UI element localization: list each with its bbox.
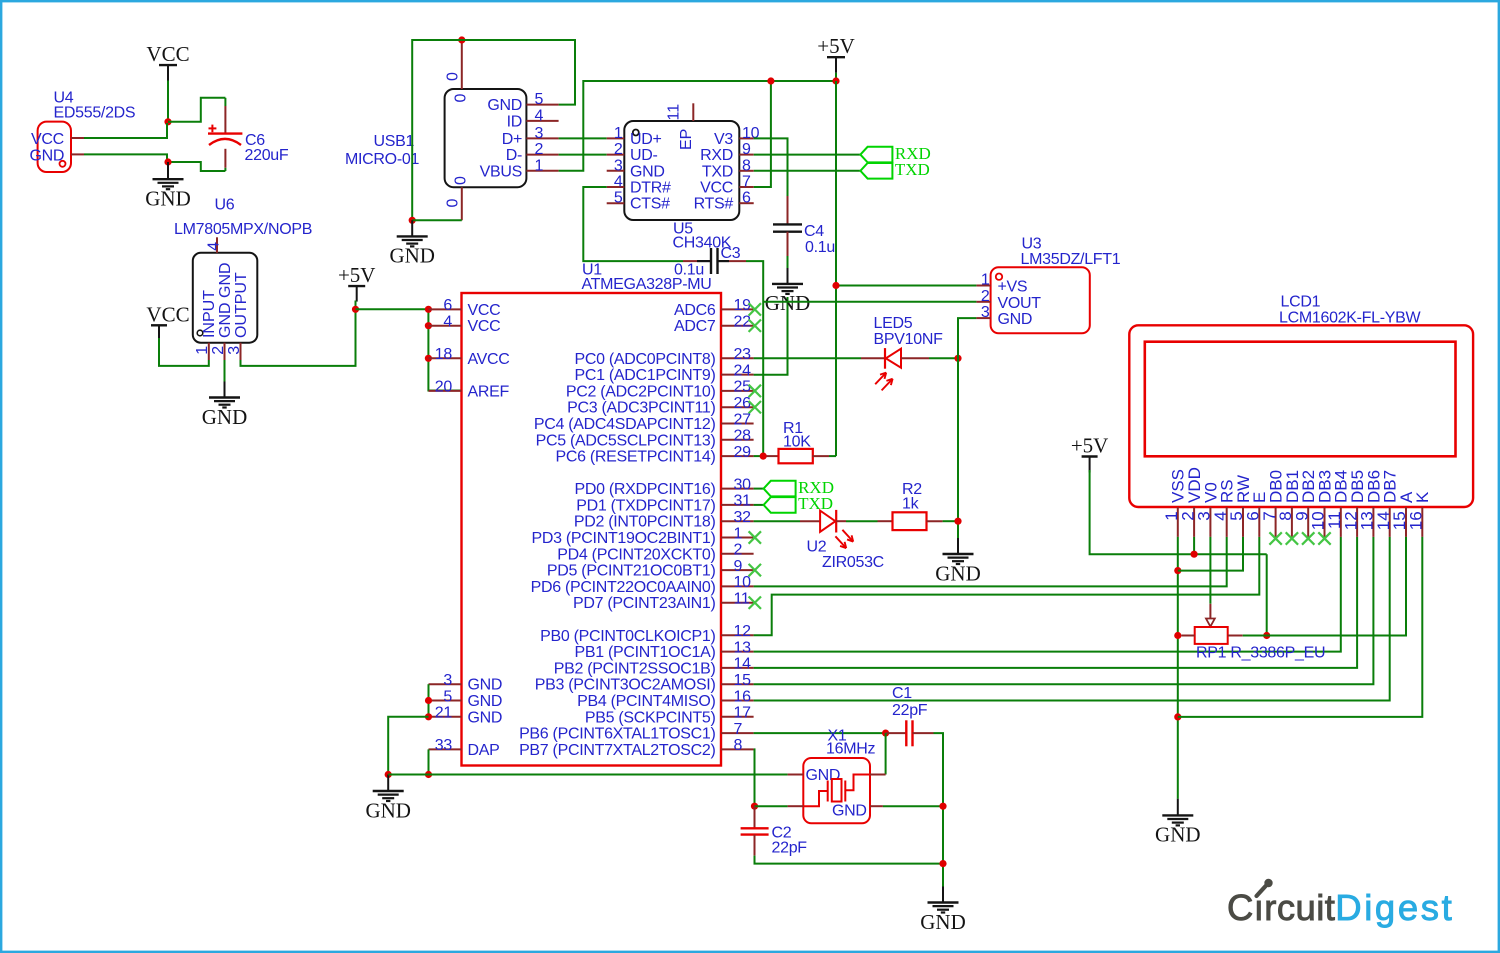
pin 23 PC0 of U1 (721, 357, 754, 359)
node C2/ground junction (939, 860, 946, 867)
svg-text:GND: GND (1155, 823, 1201, 847)
net flag RXD (U1 side) (764, 481, 796, 497)
pin 6 RTS# of U5 (739, 202, 753, 204)
svg-text:2: 2 (981, 288, 990, 305)
svg-text:1: 1 (194, 346, 211, 355)
svg-text:GND: GND (935, 561, 981, 585)
svg-text:VCC: VCC (31, 131, 64, 148)
photodiode LED5 BPV10NF (861, 357, 885, 359)
wire PC6 to R1 (754, 455, 767, 457)
wire VBUS to +5V rail (559, 81, 836, 171)
ground GND (top left) (167, 162, 169, 179)
svg-text:14: 14 (734, 656, 752, 673)
svg-text:+5V: +5V (338, 263, 376, 287)
wire PC0 to LED5 (754, 357, 861, 359)
svg-text:22pF: 22pF (892, 702, 928, 719)
svg-text:9: 9 (742, 141, 751, 158)
no-connect X on pin 19 (749, 303, 761, 315)
pin 10 V3 of U5 (739, 137, 753, 139)
svg-text:VCC: VCC (146, 42, 189, 66)
pin 6 E of LCD1 (1258, 507, 1260, 537)
wire VSS to RW (1178, 537, 1243, 571)
wire LCD VDD stub down (1193, 537, 1195, 554)
pin 31 PD1 of U1 (721, 504, 754, 506)
pin 6 VCC of U1 (429, 308, 462, 310)
pin 4 ID of USB1 (526, 120, 558, 122)
node U1 pin5 tap (425, 697, 432, 704)
svg-text:GND: GND (365, 798, 411, 822)
net flag TXD (U1 side) (764, 497, 796, 513)
svg-text:10: 10 (734, 574, 752, 591)
pin XTAL of X1 (top right) (870, 774, 886, 776)
svg-text:1: 1 (981, 272, 990, 289)
pin 1 of U6 (208, 343, 210, 360)
wire PD6 to LCD RS (754, 537, 1227, 587)
svg-text:U2: U2 (807, 539, 827, 556)
svg-text:ZIR053C: ZIR053C (822, 554, 884, 571)
wire X1 case to ground net (883, 805, 943, 807)
no-connect X on pin 25 (749, 385, 761, 397)
svg-text:AVCC: AVCC (468, 351, 510, 368)
node DAP junction (425, 771, 432, 778)
pin 32 PD2 of U1 (721, 520, 754, 522)
capacitor C3 0.1u (683, 260, 697, 262)
wire U6 pin 2 to ground (224, 360, 226, 382)
pin 33 DAP of U1 (429, 748, 462, 750)
wire PB0 to LCD E (754, 537, 1260, 635)
node XTAL2/C2 junction (751, 803, 758, 810)
svg-text:26: 26 (734, 395, 752, 412)
pin 27 PC4 of U1 (721, 423, 754, 425)
pin 8 TXD of U5 (739, 170, 753, 172)
wire PD0 to RXD flag (754, 488, 764, 490)
svg-text:10K: 10K (783, 434, 811, 451)
connector USB1 body (445, 89, 527, 187)
wire U2 to R2 (846, 520, 878, 522)
resistor R2 1k (878, 520, 893, 522)
svg-text:220uF: 220uF (245, 147, 289, 164)
svg-text:GND: GND (998, 311, 1033, 328)
svg-text:+VS: +VS (998, 279, 1028, 296)
wire +5V to U1 VCC pins (356, 308, 429, 310)
svg-text:29: 29 (734, 444, 752, 461)
wire XTAL1 down to X1 (885, 733, 887, 774)
svg-text:ADC6: ADC6 (674, 302, 716, 319)
svg-text:5: 5 (535, 91, 544, 108)
svg-text:PD3 (PCINT19OC2BINT1): PD3 (PCINT19OC2BINT1) (532, 530, 716, 547)
pin 3 D+ of USB1 (526, 137, 558, 139)
pin 7 DB0 of LCD1 (1275, 507, 1277, 537)
wire PB3 to LCD DB6 (754, 537, 1374, 684)
wire R1 to +5V rail (829, 455, 836, 457)
wire RP1 right to +5V net (1243, 635, 1267, 637)
pin 14 PB2 of U1 (721, 667, 754, 669)
svg-text:2: 2 (535, 141, 544, 158)
svg-text:GND: GND (920, 910, 966, 934)
capacitor C1 22pF (886, 732, 907, 734)
svg-text:VCC: VCC (146, 302, 189, 326)
svg-text:LCD1: LCD1 (1281, 294, 1321, 311)
wire U5 V3 to C4 (754, 138, 788, 196)
wire +5V stem (355, 301, 357, 310)
pin 4 of U6 (top) (216, 237, 218, 253)
svg-text:4: 4 (614, 174, 623, 191)
capacitor C6 (220uF polarized) (224, 98, 226, 106)
pin 16 PB4 of U1 (721, 700, 754, 702)
svg-text:GND: GND (630, 163, 665, 180)
svg-text:RTS#: RTS# (694, 196, 734, 213)
display LCD1 screen (1145, 342, 1456, 457)
pin 15 A of LCD1 (1405, 507, 1407, 537)
svg-text:GND: GND (145, 187, 191, 211)
svg-text:U3: U3 (1022, 236, 1042, 253)
svg-text:C1: C1 (892, 685, 912, 702)
svg-text:GND: GND (806, 767, 841, 784)
pin 2 UD- of U5 (607, 154, 625, 156)
svg-text:3: 3 (226, 346, 243, 355)
pin-1 mark of U6 (197, 330, 203, 336)
svg-text:2: 2 (614, 141, 623, 158)
svg-text:PD2 (INT0PCINT18): PD2 (INT0PCINT18) (574, 514, 716, 531)
svg-text:15: 15 (734, 672, 752, 689)
svg-text:0: 0 (445, 72, 462, 81)
potentiometer RP1 body (1195, 627, 1228, 644)
pin 1 PD3 of U1 (721, 537, 754, 539)
pin 15 PB3 of U1 (721, 683, 754, 685)
net flag RXD (U5 side) (860, 147, 892, 163)
pin 21 GND of U1 (429, 716, 462, 718)
wire PB2 to LCD DB5 (754, 537, 1358, 668)
svg-text:GND GND: GND GND (217, 262, 234, 338)
pin 18 AVCC of U1 (429, 357, 462, 359)
pin 12 DB5 of LCD1 (1356, 507, 1358, 537)
svg-text:LED5: LED5 (874, 315, 913, 332)
pin XTAL of X1 (bottom left) (788, 805, 804, 807)
svg-text:GND: GND (202, 405, 248, 429)
wire USB shield to GND (left loop) (412, 40, 462, 220)
pin 4 RS of LCD1 (1226, 507, 1228, 537)
svg-text:32: 32 (734, 509, 752, 526)
node +5V left junction (352, 306, 359, 313)
pin 10 DB3 of LCD1 (1324, 507, 1326, 537)
svg-text:PD7 (PCINT23AIN1): PD7 (PCINT23AIN1) (573, 595, 716, 612)
svg-text:33: 33 (435, 737, 453, 754)
IC U5 CH340K body (624, 121, 739, 220)
svg-text:USB1: USB1 (374, 133, 415, 150)
wire R2 net vertical to ground (957, 358, 959, 538)
svg-text:16: 16 (734, 688, 752, 705)
svg-text:4: 4 (206, 242, 223, 251)
svg-text:8: 8 (742, 157, 751, 174)
svg-text:PB3 (PCINT3OC2AMOSI): PB3 (PCINT3OC2AMOSI) (535, 677, 716, 694)
svg-text:PC4 (ADC4SDAPCINT12): PC4 (ADC4SDAPCINT12) (534, 416, 716, 433)
display LCD1 body (1129, 325, 1473, 507)
pin 3 GND of U1 (429, 683, 462, 685)
pin 13 DB6 of LCD1 (1372, 507, 1374, 537)
wire GND net down to U1 PC1 (754, 297, 788, 375)
wire C1 to ground down-right (934, 733, 944, 886)
node VSS/RW junction (1174, 567, 1181, 574)
svg-text:UD-: UD- (630, 147, 658, 164)
svg-text:GND: GND (468, 709, 503, 726)
svg-text:TXD: TXD (798, 494, 833, 513)
svg-text:PB2 (PCINT2SSOC1B): PB2 (PCINT2SSOC1B) (554, 660, 716, 677)
pin 2 VDD of LCD1 (1193, 507, 1195, 537)
wire PD1 to TXD flag (754, 504, 764, 506)
pin 26 PC3 of U1 (721, 406, 754, 408)
svg-text:20: 20 (435, 379, 453, 396)
node +5V rail / U5 VCC (767, 77, 774, 84)
svg-text:CTS#: CTS# (630, 196, 670, 213)
svg-text:PB7 (PCINT7XTAL2TOSC2): PB7 (PCINT7XTAL2TOSC2) (519, 742, 715, 759)
svg-text:INPUT: INPUT (201, 290, 218, 338)
pin 1 VSS of LCD1 (1177, 507, 1179, 537)
svg-text:19: 19 (734, 297, 752, 314)
wire USB shield top to pin 5 (462, 40, 575, 105)
svg-text:DAP: DAP (468, 742, 500, 759)
pin 24 PC1 of U1 (721, 374, 754, 376)
svg-text:27: 27 (734, 411, 752, 428)
svg-text:PC2 (ADC2PCINT10): PC2 (ADC2PCINT10) (566, 383, 716, 400)
svg-text:D-: D- (506, 147, 522, 164)
svg-text:C4: C4 (804, 223, 824, 240)
svg-text:PB4 (PCINT4MISO): PB4 (PCINT4MISO) (577, 693, 715, 710)
pin 25 PC2 of U1 (721, 390, 754, 392)
svg-text:4: 4 (535, 107, 544, 124)
pin 9 PD5 of U1 (721, 569, 754, 571)
svg-text:U6: U6 (215, 197, 235, 214)
svg-text:BPV10NF: BPV10NF (874, 331, 944, 348)
svg-text:PD4 (PCINT20XCKT0): PD4 (PCINT20XCKT0) (557, 546, 715, 563)
svg-text:V3: V3 (714, 131, 733, 148)
pin GND of U4 (71, 153, 84, 155)
wire junction to C6 top (168, 98, 225, 122)
wire U5 TXD to flag (754, 170, 861, 172)
no-connect X on LCD pin 8 (1286, 532, 1298, 544)
svg-text:4: 4 (443, 314, 452, 331)
pin 13 PB1 of U1 (721, 651, 754, 653)
pin 2 of U6 (224, 343, 226, 360)
wire XTAL2 to X1 pin (755, 805, 788, 807)
svg-text:UD+: UD+ (630, 131, 662, 148)
pin 8 PB7 of U1 (721, 748, 754, 750)
pin 30 PD0 of U1 (721, 488, 754, 490)
svg-text:PD0 (RXDPCINT16): PD0 (RXDPCINT16) (574, 481, 715, 498)
svg-text:GND: GND (765, 291, 811, 315)
svg-text:16: 16 (1407, 511, 1426, 530)
wire junction up to LM35 pin 3 (958, 318, 976, 358)
pin-1 mark of U4 (60, 161, 66, 167)
svg-text:31: 31 (734, 493, 752, 510)
node U1 pin4 tap (425, 322, 432, 329)
svg-text:TXD: TXD (895, 160, 930, 179)
wire LM35 VOUT to ADC0 net (763, 301, 976, 303)
wire DAP to ground rail (428, 749, 430, 774)
node +5V / LM35 tap (832, 282, 839, 289)
node GND junction below VCC (164, 158, 171, 165)
svg-text:GND: GND (832, 803, 867, 820)
svg-text:5: 5 (443, 688, 452, 705)
wire VCC to U6 pin 1 (159, 338, 209, 366)
svg-text:PB1 (PCINT1OC1A): PB1 (PCINT1OC1A) (574, 644, 715, 661)
node +5V rail corner (832, 77, 839, 84)
svg-text:1: 1 (734, 525, 743, 542)
svg-text:PC5 (ADC5SCLPCINT13): PC5 (ADC5SCLPCINT13) (536, 432, 716, 449)
svg-text:AREF: AREF (468, 383, 510, 400)
svg-text:30: 30 (734, 476, 752, 493)
wire PD2 to U2 LED (754, 520, 800, 522)
pin 16 K of LCD1 (1421, 507, 1423, 537)
node USB shield top junction (458, 36, 465, 43)
pin 14 DB7 of LCD1 (1389, 507, 1391, 537)
svg-text:11: 11 (734, 591, 750, 608)
node LED5/LM35 junction (954, 355, 961, 362)
node VCC/C6 junction (164, 118, 171, 125)
svg-text:D+: D+ (502, 131, 522, 148)
wire C6 bottom to GND junction (168, 162, 225, 171)
pin 3 GND of U3 (976, 317, 990, 319)
wire LCD VSS ground bus (1177, 537, 1179, 799)
pin 17 PB5 of U1 (721, 716, 754, 718)
svg-text:28: 28 (734, 428, 752, 445)
svg-text:25: 25 (734, 379, 752, 396)
svg-text:3: 3 (443, 672, 452, 689)
ground GND (below USB1) (411, 220, 413, 236)
no-connect X on LCD pin 9 (1302, 532, 1314, 544)
no-connect X on pin 1 (749, 531, 761, 543)
regulator U6 LM7805 body (193, 253, 257, 343)
svg-text:3: 3 (614, 157, 623, 174)
wire D+ to U5 UD+ (559, 137, 607, 139)
svg-text:13: 13 (734, 639, 752, 656)
pin-1 mark of U5 (633, 130, 639, 136)
no-connect X on pin 11 (749, 597, 761, 609)
svg-text:RP1 R_3386P_EU: RP1 R_3386P_EU (1196, 645, 1325, 662)
svg-text:ADC7: ADC7 (674, 318, 716, 335)
wire PB1 to LCD DB4 (754, 537, 1341, 652)
capacitor C2 22pF (754, 806, 756, 828)
pin 4 DTR# of U5 (607, 186, 625, 188)
pin 9 RXD of U5 (739, 154, 753, 156)
pin 11 EP of U5 (692, 103, 694, 121)
pad 0 of USB1 (top) (461, 40, 463, 89)
pin 20 AREF of U1 (429, 390, 462, 392)
pin 3 V0 of LCD1 (1209, 507, 1211, 537)
svg-text:3: 3 (981, 304, 990, 321)
svg-text:PC1 (ADC1PCINT9): PC1 (ADC1PCINT9) (574, 367, 715, 384)
svg-text:PD5 (PCINT21OC0BT1): PD5 (PCINT21OC0BT1) (547, 563, 716, 580)
svg-text:GND: GND (389, 244, 435, 268)
svg-text:LCM1602K-FL-YBW: LCM1602K-FL-YBW (1279, 309, 1422, 326)
svg-text:EP: EP (678, 129, 695, 150)
IC U4 ED555/2DS body (38, 122, 71, 172)
wire C3 to RESET net (746, 261, 763, 456)
wire D- to U5 UD- (559, 154, 607, 156)
pin VCC of U4 (71, 137, 84, 139)
node U1 pin21 tap (425, 713, 432, 720)
svg-text:11: 11 (666, 104, 683, 121)
svg-text:1: 1 (535, 157, 544, 174)
node RESET junction (760, 453, 767, 460)
pin 19 ADC6 of U1 (721, 308, 754, 310)
pin 1 UD+ of U5 (607, 137, 625, 139)
wire +5V rail down to R1 (835, 81, 837, 456)
svg-text:PB6 (PCINT6XTAL1TOSC1): PB6 (PCINT6XTAL1TOSC1) (519, 726, 715, 743)
node XTAL1 junction (882, 730, 889, 737)
svg-text:LM7805MPX/NOPB: LM7805MPX/NOPB (174, 221, 312, 238)
wire +5V to LM35 +VS (836, 285, 976, 287)
svg-text:ID: ID (507, 113, 522, 130)
svg-text:1: 1 (614, 125, 623, 142)
wire PB6 to crystal net (754, 732, 886, 734)
pin 4 VCC of U1 (429, 325, 462, 327)
wire VCC bus down to AREF (428, 309, 461, 390)
wire U6 pin 3 to +5V node (241, 309, 356, 366)
ground GND (below X1) (942, 887, 944, 903)
svg-text:PB5 (SCKPCINT5): PB5 (SCKPCINT5) (585, 709, 716, 726)
svg-text:PC6 (RESETPCINT14): PC6 (RESETPCINT14) (556, 449, 716, 466)
pin 22 ADC7 of U1 (721, 325, 754, 327)
svg-text:LM35DZ/LFT1: LM35DZ/LFT1 (1021, 251, 1121, 268)
wire GND bus to bottom-left ground (388, 717, 428, 775)
pin 2 D- of USB1 (526, 154, 558, 156)
node bottom-left ground junction (385, 771, 392, 778)
wire +5V down to RP1 right (1266, 554, 1268, 635)
svg-text:+5V: +5V (1071, 434, 1109, 458)
crystal X1 16MHz body (803, 758, 870, 823)
crystal element inside X1 (827, 781, 829, 802)
svg-text:7: 7 (734, 721, 743, 738)
pin 2 VOUT of U3 (976, 301, 990, 303)
ground GND (below R2) (957, 538, 959, 554)
pin 9 DB2 of LCD1 (1307, 507, 1309, 537)
svg-text:PC0 (ADC0PCINT8): PC0 (ADC0PCINT8) (574, 351, 715, 368)
pin 3 GND of U5 (607, 170, 625, 172)
pin 10 PD6 of U1 (721, 585, 754, 587)
wire RP1 to LCD A (backlight) (1267, 537, 1406, 636)
pin 11 PD7 of U1 (721, 602, 754, 604)
node VSS/K junction (1174, 713, 1181, 720)
sensor U3 LM35DZ body (991, 267, 1090, 333)
svg-text:0: 0 (452, 176, 469, 185)
pin 11 DB4 of LCD1 (1340, 507, 1342, 537)
svg-text:OUTPUT: OUTPUT (233, 272, 250, 338)
svg-text:TXD: TXD (702, 163, 733, 180)
wire ground rail to X1 (388, 774, 787, 776)
svg-text:PC3 (ADC3PCINT11): PC3 (ADC3PCINT11) (567, 400, 715, 417)
node VDD junction (1191, 551, 1198, 558)
pin 12 PB0 of U1 (721, 634, 754, 636)
svg-text:GND: GND (30, 148, 65, 165)
svg-text:16MHz: 16MHz (826, 741, 875, 758)
svg-text:PD6 (PCINT22OC0AAIN0): PD6 (PCINT22OC0AAIN0) (531, 579, 716, 596)
potentiometer RP1 wiper arrow (1209, 604, 1211, 619)
no-connect X on pin 9 (749, 564, 761, 576)
pin GND of X1 (top left) (788, 774, 804, 776)
no-connect X on pin 26 (749, 401, 761, 413)
wire R2 to ground net (943, 520, 958, 522)
wire U5 RXD to flag (754, 154, 861, 156)
svg-text:7: 7 (742, 174, 751, 191)
svg-text:PB0 (PCINT0CLKOICP1): PB0 (PCINT0CLKOICP1) (540, 628, 715, 645)
svg-text:GND: GND (468, 677, 503, 694)
pin 1 +VS of U3 (976, 285, 990, 287)
no-connect X on pin 22 (749, 320, 761, 332)
node U1 pin6 tap (425, 306, 432, 313)
svg-text:17: 17 (734, 705, 752, 722)
pin right of RP1 (1228, 635, 1243, 637)
capacitor C4 0.1u (787, 196, 789, 224)
